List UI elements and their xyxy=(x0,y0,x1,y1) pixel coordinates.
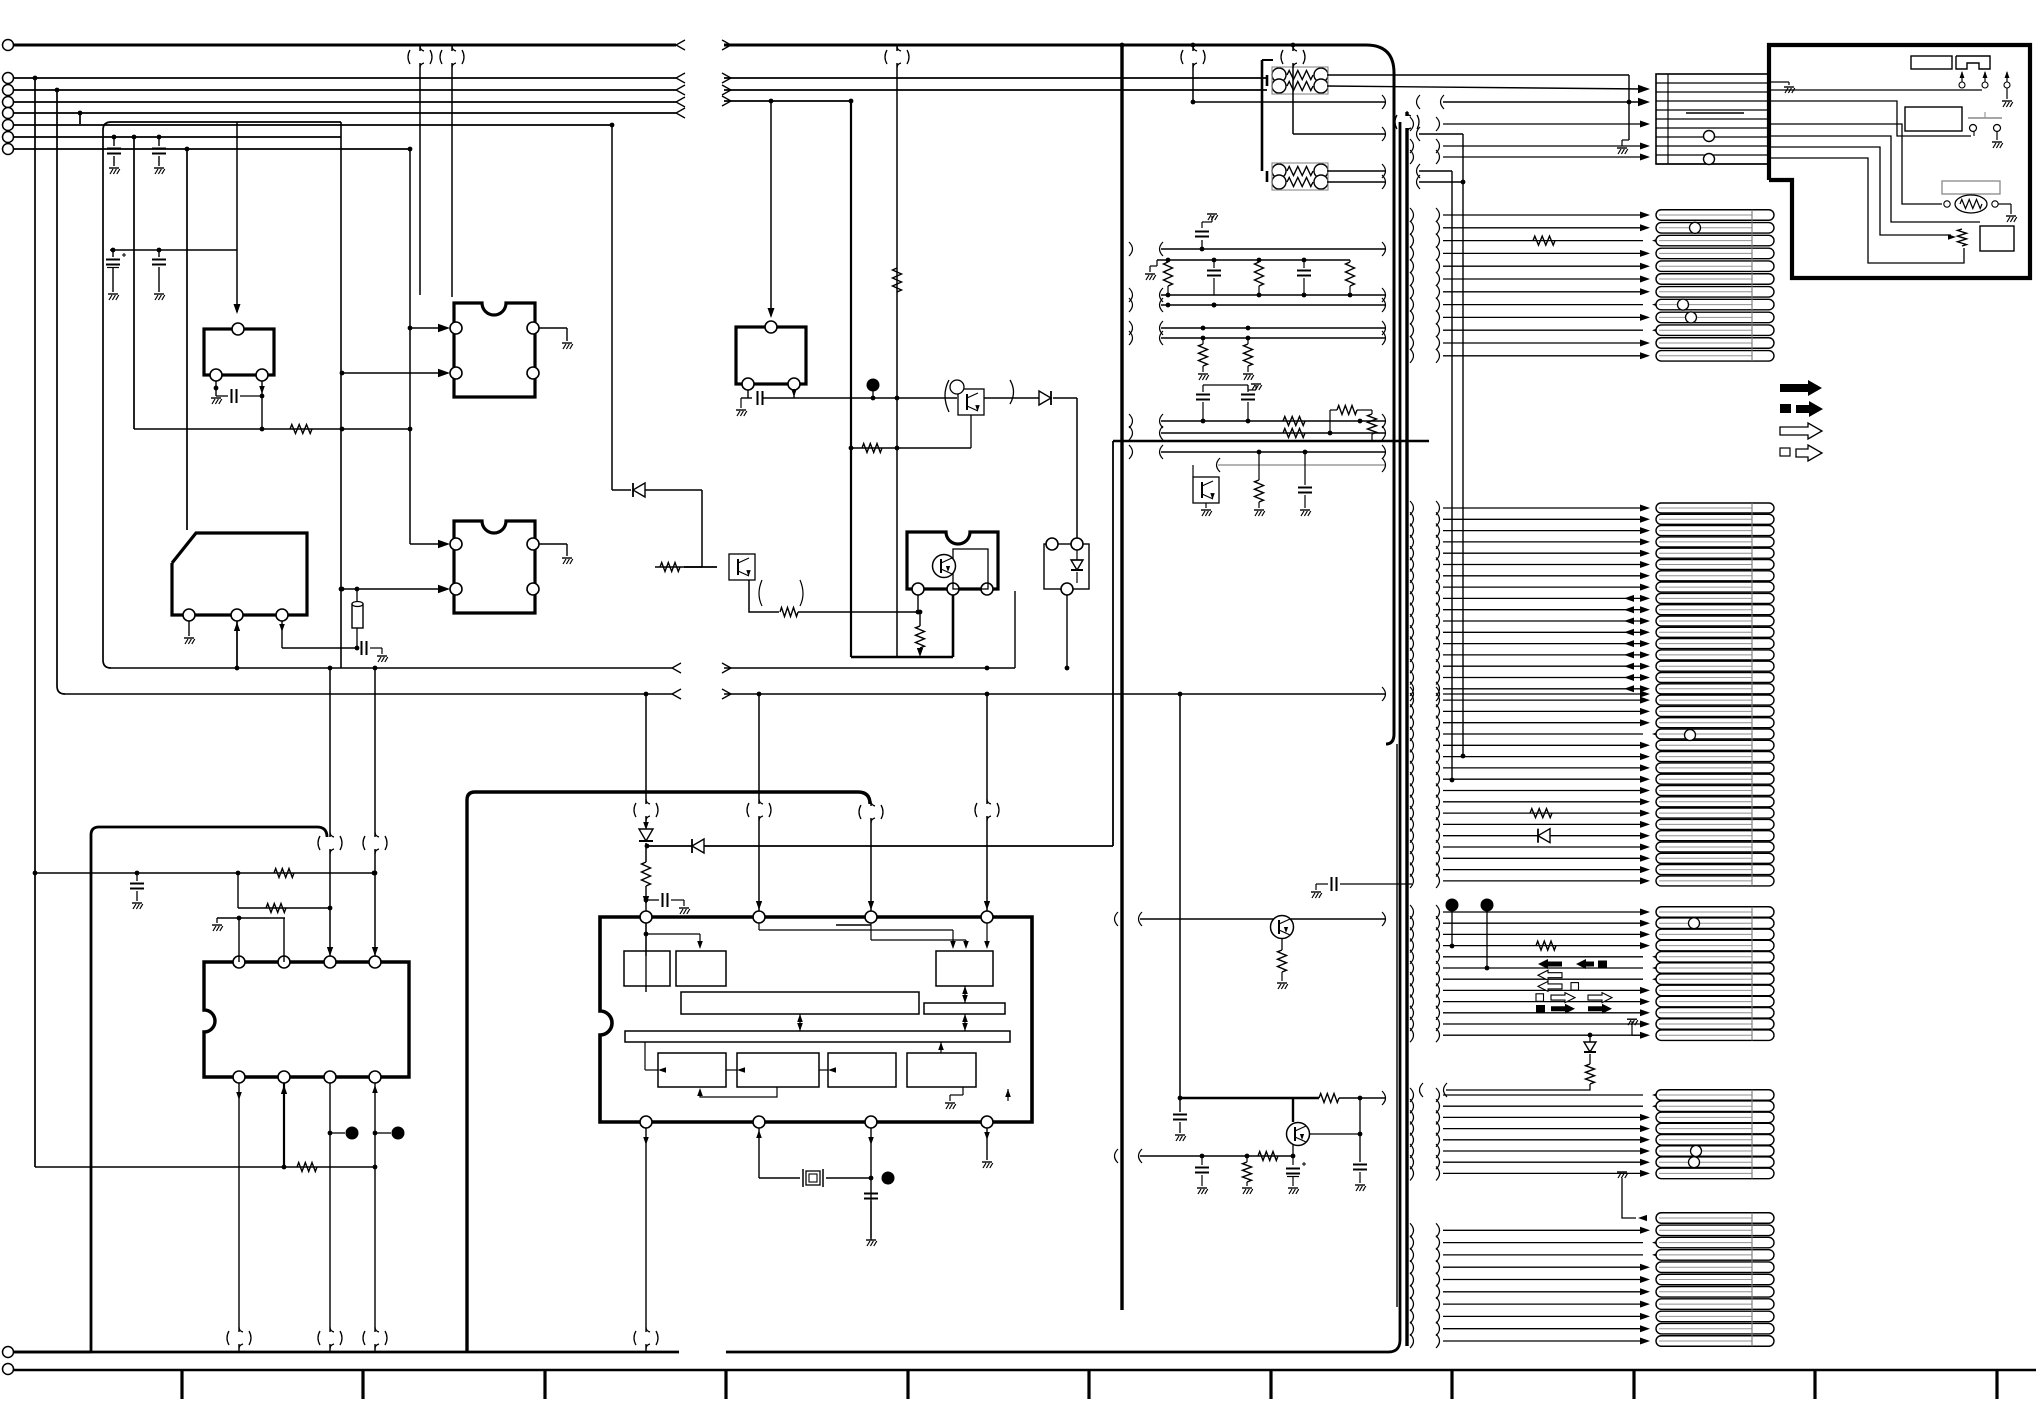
legend arrow dashed solid xyxy=(1780,401,1823,417)
resistor R4 vertical xyxy=(916,612,925,657)
wire crystal to pin3b xyxy=(826,1172,895,1185)
wire RN1 out b xyxy=(1327,85,1650,93)
wire x871 feed xyxy=(859,801,883,917)
wire RN1 feed xyxy=(1262,60,1273,171)
wire vertical x237 into IC1 xyxy=(234,122,241,314)
wire bus y149 left xyxy=(13,148,410,150)
legend arrow solid xyxy=(1780,380,1822,396)
wire fan group1 rows xyxy=(1410,501,1662,888)
wire bottom thick y1352 left xyxy=(13,1351,679,1354)
wire row y249 xyxy=(1129,242,1386,256)
wire row y305 xyxy=(1129,298,1386,312)
wire vertical x187 xyxy=(185,147,190,530)
wire U8 pin4 down xyxy=(363,1083,387,1352)
resistor R7 xyxy=(1164,262,1173,297)
wire y873 xyxy=(35,869,376,878)
resistor R17 pot xyxy=(1948,229,1967,246)
wire x897 vertical xyxy=(885,45,909,657)
resistor R11 xyxy=(1243,338,1254,380)
wire row y295 xyxy=(1129,288,1386,302)
wire U4 pin3 out xyxy=(279,621,388,662)
diode D2 block xyxy=(1044,538,1089,595)
wire vertical x410 xyxy=(408,147,413,544)
wire U9 internal c xyxy=(836,923,969,949)
wire bus y137 left xyxy=(13,136,341,138)
wire U4 pin2 from y668 xyxy=(234,621,240,670)
capacitor C17 xyxy=(1353,1098,1367,1191)
transistor Q4 xyxy=(1271,916,1294,939)
op-amp U2 xyxy=(450,303,539,397)
wire vertical x80 xyxy=(78,111,83,124)
wire rail y385 xyxy=(1203,384,1262,390)
wire U8 pin1 down xyxy=(227,1083,251,1352)
node blob b xyxy=(375,1127,405,1140)
wire U8 rail y918 xyxy=(212,916,285,962)
wire y429 xyxy=(134,425,412,434)
wire row y338 xyxy=(1129,331,1386,345)
capacitor C18 xyxy=(1195,1156,1209,1194)
capacitor C2 xyxy=(152,135,166,174)
wire y694 left xyxy=(65,689,681,699)
wire y102 to ribbon xyxy=(1193,95,1650,109)
wire section4 top border xyxy=(467,792,870,1352)
resistor R23 xyxy=(1536,941,1556,950)
wire row y421 xyxy=(1129,414,1386,428)
ground U9 internal xyxy=(945,1087,1011,1109)
wire U7 top input xyxy=(768,99,775,318)
wire RN2 out b xyxy=(1327,175,1465,189)
resistor R6 xyxy=(642,862,651,956)
capacitor C13 xyxy=(1241,385,1255,423)
wire U3 input a xyxy=(410,540,450,548)
wire ribbon feed y146 xyxy=(1410,139,1650,153)
op-amp U10 box a xyxy=(1911,56,1952,69)
ground U4 pin1 xyxy=(184,621,195,644)
connector J1 ribbon block xyxy=(1656,74,1768,165)
ground J1 xyxy=(1768,82,1795,93)
resistor R14 xyxy=(1330,406,1377,442)
wire x646 feed xyxy=(634,694,658,827)
wire bus y125 left xyxy=(13,124,612,126)
wire x1193 feed xyxy=(1181,43,1205,105)
legend arrow outline dashed xyxy=(1780,445,1822,461)
wire x330 upper xyxy=(318,666,342,962)
wire top thick bus y45 left segment xyxy=(13,40,685,50)
wire top right block border xyxy=(1769,45,2030,278)
wire y846 xyxy=(645,839,1113,853)
wire vertical x57 xyxy=(55,88,65,694)
wire x1463 down xyxy=(1461,134,1466,758)
diode D6 xyxy=(1584,1033,1596,1064)
resistor R8 xyxy=(1255,262,1264,297)
wire U3 input b xyxy=(340,585,450,593)
resistor R9 xyxy=(1346,260,1355,297)
wire bus y101 right xyxy=(722,96,851,106)
op-amp U9 box5 xyxy=(737,1053,819,1087)
capacitor C14 xyxy=(1298,450,1312,516)
wire row y328 xyxy=(1129,321,1386,335)
wire RN2 out a xyxy=(1327,164,1452,178)
connector J5 pills xyxy=(1656,907,1774,1041)
wire ribbon feed y157 xyxy=(1410,150,1650,164)
wire IC1 pin to y429 xyxy=(259,381,265,431)
capacitor C10 xyxy=(1207,260,1221,307)
capacitor C4 xyxy=(152,250,166,300)
crystal X1 xyxy=(803,1169,823,1187)
wire x1452 down xyxy=(1450,171,1455,782)
resistor R13 xyxy=(1283,429,1305,438)
node blob d xyxy=(1481,899,1494,971)
connector J6 pills xyxy=(1656,1090,1774,1179)
wire J2 arrows xyxy=(1959,71,1988,88)
wire row y919 xyxy=(1115,912,1386,926)
capacitor C9 xyxy=(1195,214,1218,249)
wire U9 pin3b down xyxy=(868,1128,874,1240)
capacitor C12 xyxy=(1196,385,1210,423)
wire group5 feed xyxy=(1617,1172,1647,1221)
wire x759 feed xyxy=(747,694,771,917)
op-amp U7 xyxy=(736,321,806,390)
transistor Q2 xyxy=(945,380,1014,415)
wire vertical x612 xyxy=(610,123,615,490)
wire D2 top feed xyxy=(1076,398,1078,538)
wire thin x1397 xyxy=(1396,744,1398,1307)
wire rail y260 xyxy=(1145,258,1350,280)
capacitor C8 xyxy=(864,1194,878,1247)
wire U9 internal a xyxy=(644,923,703,992)
op-amp U9 xyxy=(600,911,1032,1128)
diode D1 xyxy=(612,483,702,497)
transistor Q5 xyxy=(1287,1098,1363,1146)
resistor R22 xyxy=(1242,1156,1253,1194)
resistor R24 xyxy=(1420,1064,1595,1097)
wire stair f xyxy=(1768,158,1964,263)
wire stair d xyxy=(1768,136,1980,222)
wire vertical x35 xyxy=(33,76,38,1167)
wire stair a xyxy=(1768,89,1982,91)
transistor Q1 photocoupler xyxy=(684,554,803,606)
wire y398 xyxy=(736,389,957,416)
wire fan group4 rows xyxy=(1410,1088,1662,1180)
wire right border vertical x1394 xyxy=(1386,73,1394,744)
wire Q2 base xyxy=(849,415,971,453)
connector J2 xyxy=(1956,56,1990,69)
wire vertical x302 xyxy=(0,0,1,1)
wire bus x1407 xyxy=(1395,111,1419,1346)
wire y134 right xyxy=(1293,127,1463,141)
node blob c xyxy=(1446,899,1459,949)
node left edge terminals xyxy=(3,40,14,1375)
wire U9 arrows xyxy=(645,986,968,1073)
ground SW1 xyxy=(1992,132,2003,148)
wire y1167 xyxy=(35,1163,375,1172)
wire bus y90 left xyxy=(13,85,685,95)
wire U9 internal d xyxy=(984,923,990,949)
wire U2 input a xyxy=(410,324,450,332)
wire y908 xyxy=(238,873,332,913)
op-amp U10 box d xyxy=(1980,226,2014,251)
legend arrow outline xyxy=(1780,423,1822,439)
wire Q1 out xyxy=(749,580,922,617)
wire border x1113 xyxy=(1112,441,1114,846)
capacitor C1 xyxy=(107,135,121,174)
wire bus y113 left xyxy=(13,108,685,118)
wire fan group5 rows xyxy=(1410,1223,1662,1348)
wire left inner block border xyxy=(103,122,341,668)
wire x987 feed xyxy=(975,694,999,917)
op-amp U9 box1 xyxy=(624,951,670,986)
resistor R20 vertical xyxy=(352,587,363,651)
ground U2 xyxy=(539,328,573,349)
op-amp U9 box7 xyxy=(907,1053,976,1087)
op-amp U9 box4 xyxy=(658,1053,726,1087)
wire vertical x342 xyxy=(339,122,344,668)
node blob a xyxy=(330,1127,359,1140)
wire y694 right xyxy=(644,687,1386,701)
wire stair e xyxy=(1768,147,1951,235)
connector J7 pills xyxy=(1656,1213,1774,1347)
wire U5 pin1 down xyxy=(916,595,921,614)
wire U9 pin2b crystal xyxy=(756,1128,800,1178)
wire bus y78 right xyxy=(722,73,1267,83)
node blob y385 xyxy=(867,379,880,401)
capacitor C7 xyxy=(644,893,690,914)
op-amp U9 bar1 xyxy=(681,992,919,1014)
op-amp U8 xyxy=(204,956,409,1083)
capacitor C15 xyxy=(1311,877,1412,898)
resistor network RN1 xyxy=(1267,67,1328,94)
op-amp U5 xyxy=(907,532,998,595)
capacitor C6 xyxy=(130,871,144,909)
wire vertical x167 xyxy=(0,0,1,1)
op-amp U1 xyxy=(204,323,274,381)
wire stair b xyxy=(1768,101,1974,136)
resistor R15 xyxy=(1254,450,1265,516)
connector J3 pills xyxy=(1656,210,1774,361)
wire ribbon feed y124 xyxy=(1410,117,1650,131)
wire section5 border xyxy=(13,827,327,1352)
switch SW1 xyxy=(1968,112,2002,132)
wire section3 border x1122 xyxy=(1120,43,1125,1310)
op-amp U9 box2 xyxy=(676,951,726,986)
capacitor C19 electrolytic xyxy=(1286,1156,1306,1194)
wire x1633 xyxy=(1617,75,1631,154)
resistor R10 xyxy=(1198,338,1209,380)
wire RN1 out a xyxy=(1327,74,1629,76)
wire bottom thick y1352 right xyxy=(726,122,1400,1352)
wire x1180 xyxy=(1179,694,1181,1098)
legend small arrows xyxy=(1536,959,1612,1014)
op-amp U9 box6 xyxy=(828,1053,896,1087)
resistor R18 xyxy=(1533,236,1555,245)
capacitor C16 xyxy=(1173,1096,1187,1141)
ground IC1 pin xyxy=(211,381,222,404)
wire U9 pin4b xyxy=(982,1128,993,1168)
wire row y433 xyxy=(1129,426,1386,440)
diode D3 xyxy=(984,391,1077,405)
wire arrow c xyxy=(2002,71,2013,107)
wire row y452 xyxy=(1129,445,1386,459)
wire U9 internal e xyxy=(697,1087,777,1097)
diode D5 xyxy=(1538,829,1550,843)
wire bottom ruler xyxy=(13,1370,2036,1399)
wire x1293 feed xyxy=(1281,43,1305,134)
capacitor C3 electrolytic xyxy=(106,250,126,300)
wire fan group3 rows xyxy=(1410,905,1662,1042)
wire bus y90 right xyxy=(722,85,1267,95)
op-amp U4 xyxy=(172,533,307,621)
wire U8 pin3 down xyxy=(318,1083,342,1352)
ground group3 bottom xyxy=(1627,1019,1646,1035)
wire x702 down xyxy=(701,490,703,567)
wire D2 bottom xyxy=(1065,595,1070,670)
op-amp U9 bar3 xyxy=(625,1031,1010,1042)
resistor R16 oval xyxy=(1944,195,2017,222)
wire bus y78 left xyxy=(13,73,685,83)
resistor R3 xyxy=(655,563,702,572)
resistor R19 xyxy=(1530,809,1552,818)
wire stair c xyxy=(1768,124,1942,204)
op-amp U9 box3 xyxy=(936,951,993,986)
wire x1015 up xyxy=(1014,591,1016,668)
wire fan group2 rows xyxy=(1410,208,1662,363)
resistor R21 xyxy=(1277,939,1288,989)
diode D4 LED xyxy=(639,822,653,862)
transistor Q3 xyxy=(1193,465,1219,516)
wire y668 right xyxy=(722,663,1015,673)
wire x375 upper xyxy=(363,666,387,962)
connector J4 pills xyxy=(1656,503,1774,886)
capacitor C11 xyxy=(1297,260,1311,297)
wire top thick bus y45 right segment xyxy=(722,40,1394,73)
op-amp U10 box b xyxy=(1905,107,1962,131)
wire y694 fan segment xyxy=(1410,687,1650,701)
wire vertical x134 xyxy=(132,135,137,429)
wire rail y250 xyxy=(110,248,237,253)
wire thick y1098 xyxy=(1180,1091,1386,1105)
op-amp U3 xyxy=(450,521,539,613)
resistor R12 xyxy=(1283,417,1305,426)
ground U3 xyxy=(539,544,573,564)
resistor R5 xyxy=(893,268,902,292)
resistor network RN2 xyxy=(1267,163,1328,190)
wire thick y657 xyxy=(851,595,953,657)
wire row y465 xyxy=(1217,458,1386,472)
capacitor C5 xyxy=(216,389,262,403)
wire break verticals x420 x452 xyxy=(408,45,464,297)
wire row y1156 xyxy=(1115,1145,1296,1163)
wire bus y102 left xyxy=(13,97,685,107)
wire x851 vertical xyxy=(849,99,854,657)
op-amp U9 bar2 xyxy=(924,1003,1005,1014)
wire U9 internal b xyxy=(759,923,956,949)
wire border y441 xyxy=(1113,440,1429,443)
wire U2 input b xyxy=(340,369,450,377)
wire U8 pin2 down xyxy=(281,1083,287,1169)
wire y668 left xyxy=(111,663,681,673)
wire U9 pin1b down xyxy=(634,1128,658,1352)
op-amp U10 box c xyxy=(1942,181,2000,194)
